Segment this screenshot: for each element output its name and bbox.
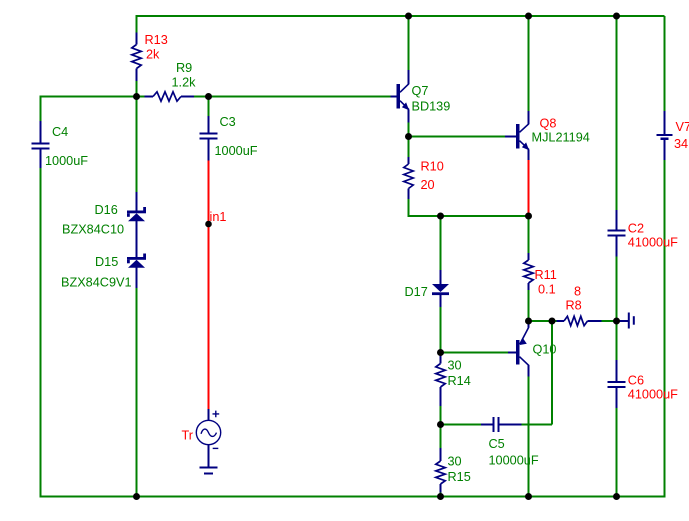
source Tr leads: [208, 409, 210, 467]
capacitor C6 plates: [608, 381, 626, 383]
svg-text:V7: V7: [676, 120, 689, 134]
output pin bars: [628, 313, 630, 329]
resistor R11 zigzag: [524, 260, 533, 283]
svg-text:C3: C3: [220, 115, 236, 129]
wire net in1 (red): [208, 161, 210, 410]
wire upper rail left: [41, 96, 145, 98]
resistor R13 zigzag: [132, 45, 141, 69]
node dot (408.5,16): [405, 13, 412, 20]
wire C5 rail right: [522, 424, 529, 426]
resistor R13 leads: [136, 33, 138, 82]
svg-text:41000uF: 41000uF: [628, 235, 678, 249]
svg-text:Tr: Tr: [182, 428, 194, 442]
capacitor C3 leads: [208, 116, 210, 161]
svg-text:C2: C2: [628, 221, 644, 235]
node dot (440.5,216): [437, 213, 444, 220]
svg-text:1000uF: 1000uF: [45, 154, 88, 168]
svg-text:R9: R9: [176, 61, 192, 75]
svg-text:0.1: 0.1: [538, 283, 556, 297]
node dot (616.5,496.5): [613, 493, 620, 500]
wire Q10 base rail: [441, 352, 509, 354]
wire Q10 emitter column: [528, 377, 530, 497]
resistor R9 leads: [145, 96, 195, 98]
node dot (408.5,136.5): [405, 133, 412, 140]
wire R11 bottom: [528, 290, 530, 321]
node dot (528.5,16): [525, 13, 532, 20]
svg-text:30: 30: [448, 359, 462, 373]
resistor R14 leads: [440, 353, 442, 407]
source Tr plus: [213, 411, 220, 418]
wire R13 column top: [136, 16, 138, 33]
output pin lead: [617, 320, 629, 322]
svg-text:D15: D15: [95, 255, 118, 269]
wire R11 top: [528, 216, 530, 253]
ground bars (Tr): [200, 467, 218, 469]
svg-text:34: 34: [674, 137, 688, 151]
wire R8 rail left: [529, 320, 557, 322]
wire rail Q7-Q8 base: [409, 136, 506, 138]
wire top bus: [136, 15, 665, 16]
source Tr minus: [213, 447, 219, 449]
transistor Q8 body: [516, 124, 520, 149]
wire C2 column bottom: [616, 257, 618, 361]
wire R10 top: [408, 137, 410, 158]
resistor R10 zigzag: [404, 164, 413, 189]
resistor R15 zigzag: [436, 461, 445, 484]
svg-text:30: 30: [448, 454, 462, 468]
svg-text:R14: R14: [448, 374, 471, 388]
svg-text:1.2k: 1.2k: [172, 76, 197, 90]
svg-text:41000uF: 41000uF: [628, 387, 678, 401]
svg-text:R11: R11: [535, 268, 557, 282]
svg-text:Q10: Q10: [533, 342, 557, 356]
wire feedback branch: [528, 320, 553, 425]
transistor Q8 collector diagonal: [520, 124, 529, 133]
wire R10 bottom corner: [408, 199, 529, 216]
resistor R8 zigzag: [564, 316, 588, 325]
wire C6 column bottom: [616, 408, 618, 497]
svg-text:D16: D16: [95, 203, 118, 217]
node dot (528.5,216): [525, 213, 532, 220]
node dot (528.5,321): [525, 318, 532, 325]
node dot (440.5,352.5): [437, 349, 444, 356]
source Tr circle: [196, 420, 220, 444]
resistor R11 leads: [528, 253, 530, 290]
zener diode D16: [127, 211, 146, 214]
svg-text:C6: C6: [628, 373, 644, 387]
transistor Q10 emitter diagonal (top): [520, 327, 529, 344]
wire left edge lower: [40, 168, 42, 498]
resistor R15 leads: [440, 448, 442, 493]
svg-text:Q8: Q8: [540, 116, 557, 130]
wire C2 column top: [616, 16, 618, 210]
transistor Q7 body: [397, 84, 401, 109]
transistor Q8 arrow: [522, 142, 529, 150]
svg-text:BZX84C10: BZX84C10: [62, 223, 124, 237]
transistor Q10 arrow: [520, 338, 527, 345]
svg-text:D17: D17: [405, 285, 428, 299]
capacitor C5 plates: [493, 417, 495, 432]
node dot (616.5,321): [613, 318, 620, 325]
svg-text:BD139: BD139: [412, 99, 451, 113]
wire Q8 collector column: [528, 16, 530, 111]
node dot (616.5,16): [613, 13, 620, 20]
wire D15 column lower: [136, 288, 138, 497]
resistor R8 leads: [557, 320, 602, 322]
source V7 plates: [657, 134, 673, 136]
transistor Q10 leads: [508, 324, 529, 377]
capacitor C4 leads: [40, 121, 42, 168]
node dot (552,321): [549, 318, 556, 325]
wire upper rail right: [194, 96, 391, 98]
node dot (440.5,496.5): [437, 493, 444, 500]
transistor Q8 leads: [505, 111, 529, 160]
transistor Q10 body: [516, 340, 520, 365]
wire Q10 collector stub: [528, 321, 530, 324]
wire right edge upper: [664, 16, 666, 111]
wire Q8 emitter net (red): [528, 160, 530, 216]
node dot in1 (208.5,224): [205, 221, 212, 228]
svg-text:R13: R13: [145, 33, 168, 47]
source Tr sine: [201, 429, 217, 436]
wire D17 top: [440, 216, 442, 270]
capacitor C4 plates: [32, 143, 50, 145]
resistor R9 zigzag: [153, 92, 181, 101]
transistor Q7 emitter diagonal: [400, 101, 409, 110]
transistor Q7 collector diagonal: [400, 84, 409, 93]
node dot (528.5,496.5): [525, 493, 532, 500]
svg-text:C4: C4: [52, 125, 68, 139]
wire R13 column bottom: [136, 81, 138, 97]
svg-text:in1: in1: [210, 210, 227, 224]
wire D17 bottom: [440, 307, 442, 353]
svg-text:2k: 2k: [146, 48, 160, 62]
transistor Q7 leads: [391, 70, 409, 123]
node dot (136.5,96.5): [133, 93, 140, 100]
wire left edge upper: [40, 96, 42, 122]
diode D17 leads: [440, 270, 442, 307]
svg-text:R10: R10: [421, 160, 444, 174]
diode D17: [432, 284, 449, 292]
resistor R10 leads: [408, 157, 410, 199]
zener diode D15: [127, 257, 146, 260]
transistor Q10 collector diagonal (bottom): [520, 357, 529, 366]
wire R15 top: [440, 425, 442, 449]
wire R15 bottom: [440, 493, 442, 497]
wire C3 column top: [208, 97, 210, 117]
capacitor C2 leads: [616, 210, 618, 257]
svg-text:Q7: Q7: [412, 84, 429, 98]
wire R14 bottom: [440, 406, 442, 425]
svg-text:R8: R8: [566, 299, 582, 313]
wire right edge lower: [664, 160, 666, 498]
capacitor C5 leads: [481, 424, 522, 426]
svg-text:BZX84C9V1: BZX84C9V1: [61, 276, 132, 290]
wire bottom bus: [40, 496, 666, 498]
transistor Q8 emitter diagonal: [520, 141, 529, 150]
node dot (208.5,96.5): [205, 93, 212, 100]
svg-text:1000uF: 1000uF: [215, 144, 258, 158]
source V7 leads: [664, 111, 666, 160]
svg-text:R15: R15: [448, 470, 471, 484]
svg-text:20: 20: [421, 178, 435, 192]
node dot (136.5,496.5): [133, 493, 140, 500]
capacitor C6 leads: [616, 360, 618, 408]
resistor R14 zigzag: [436, 364, 445, 388]
svg-text:10000uF: 10000uF: [489, 453, 539, 467]
transistor Q7 arrow: [402, 102, 409, 110]
svg-text:C5: C5: [489, 437, 505, 451]
wire Q7 collector column: [408, 16, 410, 70]
diode D16-D15 leads: [136, 192, 138, 288]
wire D16 column upper: [136, 97, 138, 193]
capacitor C2 plates: [608, 230, 626, 232]
wire R8 rail right: [602, 320, 617, 322]
wire Q7 emitter column: [408, 123, 410, 138]
capacitor C3 plates: [200, 133, 218, 135]
wire C5 rail left: [441, 424, 482, 426]
svg-text:MJL21194: MJL21194: [532, 131, 590, 145]
node dot (440.5,424.5): [437, 421, 444, 428]
svg-text:8: 8: [574, 285, 581, 299]
